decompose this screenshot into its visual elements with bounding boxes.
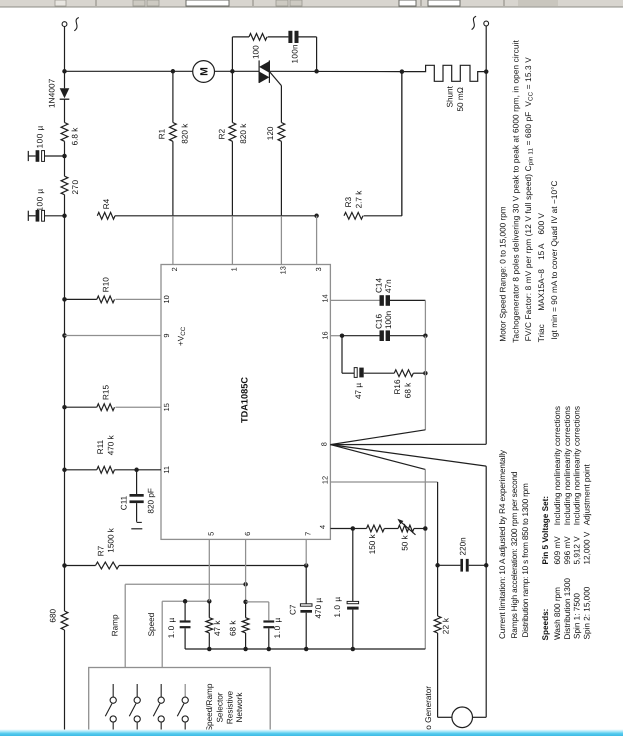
- label R16: [393, 379, 402, 394]
- node 47k bottom: [207, 647, 212, 652]
- label 680: [49, 608, 58, 622]
- label Selector: [216, 692, 225, 722]
- svg-text:9: 9: [162, 333, 171, 337]
- pin 4 number: [318, 525, 327, 529]
- pin13 lead: [280, 141, 282, 264]
- svg-text:47 µ: 47 µ: [354, 383, 363, 399]
- pin9 lead: [65, 335, 162, 337]
- label Speed: [147, 612, 156, 636]
- svg-text:220n: 220n: [458, 537, 467, 556]
- svg-text:270: 270: [71, 179, 80, 194]
- svg-text:100 µ: 100 µ: [36, 188, 45, 211]
- svg-text:470 µ: 470 µ: [314, 598, 323, 619]
- resistor 100: [232, 34, 267, 41]
- label 100n C16: [384, 310, 393, 329]
- note triac type: [537, 212, 546, 342]
- svg-text:47 k: 47 k: [213, 620, 222, 636]
- label Shunt: [446, 85, 455, 107]
- node shunt right: [484, 69, 489, 74]
- wire pot riser: [424, 469, 426, 649]
- wire R3 riser node: [401, 72, 403, 216]
- svg-text:820 k: 820 k: [181, 123, 190, 144]
- label TDA1085C: [239, 377, 249, 423]
- switch S1: [105, 684, 116, 730]
- svg-text:Including nonlinearity correct: Including nonlinearity corrections: [563, 406, 572, 525]
- pin14 lead: [330, 299, 379, 301]
- label Tacho Generator: [424, 686, 433, 736]
- pin 11 number: [162, 466, 171, 474]
- capacitor 100u lower: [28, 210, 64, 222]
- node 220n left: [435, 563, 440, 568]
- node 68k bottom: [243, 647, 248, 652]
- label 220n: [458, 537, 467, 556]
- triac: [259, 60, 269, 83]
- wire R3 to corner: [364, 72, 402, 216]
- resistor R11: [65, 466, 115, 473]
- resistor 22k: [434, 616, 441, 633]
- node R7: [62, 563, 67, 568]
- node pin6 rail: [243, 600, 248, 605]
- svg-text:TDA1085C: TDA1085C: [239, 377, 249, 423]
- svg-text:2: 2: [170, 267, 179, 271]
- node R11: [62, 468, 67, 473]
- wire C11 top: [136, 470, 138, 494]
- label Speeds header: [541, 609, 550, 641]
- label R1: [157, 128, 166, 139]
- svg-text:470 k: 470 k: [106, 434, 115, 455]
- pin8 fan line d: [330, 445, 486, 467]
- node snubber right: [314, 69, 319, 74]
- wire diode to 6.8k: [64, 99, 66, 122]
- svg-text:Including nonlinearity correct: Including nonlinearity corrections: [553, 406, 562, 525]
- pin16 lead: [330, 335, 342, 337]
- wire cap3 riser: [352, 529, 354, 602]
- resistor R4: [97, 212, 115, 219]
- toolbar fragments: [55, 0, 558, 6]
- ground C11: [131, 522, 142, 528]
- wire R1 top: [172, 71, 174, 122]
- svg-text:6.8 k: 6.8 k: [71, 127, 80, 146]
- node cap2 bottom: [267, 647, 272, 652]
- diode 1N4007: [60, 88, 70, 99]
- pin7 lead: [305, 539, 307, 565]
- svg-text:4: 4: [318, 525, 327, 529]
- toolbar background: [0, 0, 623, 7]
- svg-text:C7: C7: [289, 604, 298, 615]
- label Pin5 header: [541, 496, 550, 565]
- svg-text:1500 k: 1500 k: [107, 527, 116, 552]
- note fvc factor: [524, 57, 535, 341]
- wire C11 bottom: [136, 503, 138, 522]
- svg-text:100: 100: [252, 45, 261, 59]
- speed row distribution: [563, 406, 572, 639]
- label R7: [96, 545, 105, 556]
- wire motor to triac node: [215, 70, 260, 72]
- node R10: [62, 297, 67, 302]
- svg-text:Resistive: Resistive: [225, 690, 234, 724]
- node pin4: [351, 526, 356, 531]
- pin2 lead: [172, 141, 174, 264]
- pin4 lead: [330, 528, 352, 530]
- svg-text:R15: R15: [101, 385, 110, 400]
- wire L1 down: [64, 27, 66, 72]
- left rail mid: [64, 216, 66, 566]
- wire R16 to node: [413, 372, 425, 374]
- node C7 bottom: [304, 647, 309, 652]
- label R4: [102, 198, 111, 209]
- pin 2 number: [170, 267, 179, 271]
- pin 12 number: [321, 476, 330, 484]
- resistor 68k: [242, 602, 249, 649]
- node R1 top: [171, 69, 176, 74]
- svg-text:50 k: 50 k: [401, 534, 410, 550]
- svg-text:6: 6: [243, 532, 252, 536]
- node cap3 bottom: [351, 647, 356, 652]
- svg-text:R7: R7: [96, 545, 105, 556]
- svg-text:100n: 100n: [384, 310, 393, 329]
- wire cap to R16: [364, 372, 395, 374]
- svg-text:C14: C14: [374, 278, 383, 293]
- capacitor 1.0u C: [347, 601, 359, 649]
- svg-text:Shunt: Shunt: [446, 85, 455, 107]
- svg-text:12,000 V: 12,000 V: [583, 531, 592, 564]
- switch S2: [129, 684, 140, 730]
- label 50 k: [401, 534, 410, 550]
- label 100n snubber: [290, 44, 299, 64]
- label 1N4007: [47, 78, 56, 108]
- selector box: [89, 668, 271, 736]
- svg-text:150 k: 150 k: [368, 533, 377, 554]
- pin6 lead: [245, 539, 247, 602]
- svg-text:Igt min = 90 mA to cover Quad: Igt min = 90 mA to cover Quad IV at −10°…: [550, 181, 559, 340]
- label 1.0 u B: [273, 617, 282, 638]
- pin 7 number: [303, 532, 312, 536]
- svg-text:Tacho Generator: Tacho Generator: [424, 686, 433, 736]
- note tachogenerator: [511, 40, 520, 343]
- wire 270 to R4 node: [64, 195, 66, 216]
- pin15 lead: [115, 406, 161, 408]
- resistor 270: [61, 176, 68, 195]
- node ramp pin6: [243, 582, 248, 587]
- svg-text:C16: C16: [374, 314, 383, 329]
- resistor R16 68k: [394, 370, 413, 377]
- speed row spin2: [583, 464, 592, 640]
- resistor R10: [65, 296, 115, 303]
- label 1.0 u A: [167, 617, 176, 638]
- svg-text:50 mΩ: 50 mΩ: [456, 87, 465, 111]
- wire snubber left: [231, 37, 233, 71]
- svg-text:M: M: [199, 67, 211, 76]
- wire 150k to pot: [384, 528, 398, 530]
- svg-text:Spin 1: 7500: Spin 1: 7500: [572, 593, 581, 639]
- svg-text:R11: R11: [96, 439, 105, 454]
- capacitor 100n snubber: [288, 31, 298, 43]
- svg-text:Pin 5 Voltage Set:: Pin 5 Voltage Set:: [541, 496, 550, 565]
- pin11 lead: [137, 469, 161, 471]
- svg-text:Network: Network: [235, 692, 244, 723]
- capacitor 100u upper: [28, 150, 64, 162]
- node shunt left: [400, 69, 405, 74]
- wire node to 270: [64, 156, 66, 176]
- pin8 fan line c: [330, 445, 425, 470]
- ramp line: [125, 584, 245, 667]
- wire C16 to node: [390, 335, 425, 337]
- svg-text:15: 15: [162, 403, 171, 411]
- pin 15 number: [162, 403, 171, 411]
- wire triac to shunt node: [269, 70, 402, 72]
- label R2 820 k: [239, 123, 248, 144]
- IC TDA1085C box: [161, 265, 330, 540]
- svg-text:Distribution ramp: 10 s from 8: Distribution ramp: 10 s from 850 to 1300…: [521, 483, 530, 637]
- note igt min: [550, 181, 559, 340]
- svg-text:Distribution 1300: Distribution 1300: [563, 578, 572, 640]
- pin3 lead: [316, 216, 318, 265]
- wire L2 down: [485, 26, 487, 72]
- svg-text:1N4007: 1N4007: [47, 78, 56, 108]
- wire 6.8k to node: [64, 141, 66, 156]
- capacitor 47u: [354, 368, 363, 378]
- label R10: [101, 277, 110, 292]
- svg-text:1: 1: [230, 267, 239, 271]
- label R2: [218, 128, 227, 139]
- wire 220n row left: [438, 564, 461, 566]
- svg-text:1.0 µ: 1.0 µ: [333, 596, 342, 617]
- wire main AC line: [65, 70, 193, 72]
- capacitor C16 100n: [380, 330, 391, 341]
- pin8 fan line a: [330, 430, 425, 445]
- taskbar edge: [0, 730, 623, 736]
- wire R4 to R3 node: [115, 215, 317, 217]
- AC terminal L1 (open circle): [62, 22, 67, 27]
- label 47 u: [354, 383, 363, 399]
- wire gate to 120: [280, 86, 282, 123]
- svg-text:Ramp: Ramp: [110, 614, 119, 636]
- switch S4: [177, 684, 188, 730]
- label R11: [96, 439, 105, 454]
- svg-text:R1: R1: [157, 128, 166, 139]
- switch S3: [153, 684, 164, 730]
- speed row spin1: [572, 406, 581, 639]
- wire left rail bottom: [64, 630, 66, 730]
- resistor 680: [61, 566, 68, 631]
- pin12 lead: [330, 482, 437, 565]
- resistor R1: [170, 123, 177, 142]
- svg-text:8: 8: [319, 442, 328, 446]
- svg-text:R16: R16: [393, 379, 402, 394]
- svg-text:100 µ: 100 µ: [36, 125, 45, 148]
- svg-text:Speed/Ramp: Speed/Ramp: [205, 683, 214, 731]
- pin 9 number: [162, 333, 171, 337]
- wire res to cap100n: [268, 36, 289, 38]
- svg-text:11: 11: [162, 466, 171, 474]
- capacitor 1.0u A: [180, 601, 191, 649]
- label R1 820 k: [181, 123, 190, 144]
- svg-text:2.7 k: 2.7 k: [355, 190, 364, 209]
- label 47 k: [213, 620, 222, 636]
- node pin3/R3: [314, 214, 319, 219]
- svg-text:C11: C11: [120, 495, 129, 510]
- resistor 120: [278, 123, 285, 142]
- shunt resistor: [402, 65, 486, 81]
- svg-text:100n: 100n: [290, 44, 299, 64]
- note current limitation: [498, 449, 507, 639]
- wire 22k to generator: [438, 633, 452, 717]
- wire 220n row right: [469, 564, 487, 566]
- pin 5 number: [207, 532, 216, 536]
- node R4 row: [62, 214, 67, 219]
- svg-text:820 pF: 820 pF: [146, 488, 155, 514]
- svg-text:68 k: 68 k: [404, 382, 413, 398]
- wire generator right: [473, 716, 487, 718]
- label Speed/Ramp: [205, 683, 214, 731]
- speed line: [162, 601, 209, 667]
- resistor R15: [65, 404, 115, 411]
- node R16 right: [423, 371, 428, 376]
- potentiometer 50k: [397, 519, 415, 535]
- label C11: [120, 495, 129, 510]
- node pin5 speed: [207, 599, 212, 604]
- wire R7 to C7: [119, 565, 306, 567]
- label 2.7 k: [355, 190, 364, 209]
- label 120: [266, 126, 275, 140]
- label C14: [374, 278, 383, 293]
- node pin9: [62, 333, 67, 338]
- svg-text:22 k: 22 k: [442, 617, 451, 634]
- node triac left / R2 / snubber: [230, 69, 235, 74]
- label +VCC: [177, 326, 188, 346]
- svg-text:47n: 47n: [384, 279, 393, 293]
- wire to diode: [64, 71, 66, 88]
- label R15: [101, 385, 110, 400]
- bottom rail: [185, 648, 425, 650]
- node 220n right: [484, 563, 489, 568]
- resistor 47k: [206, 601, 213, 649]
- resistor R2: [229, 123, 236, 142]
- pin1 lead: [231, 141, 233, 264]
- wire C7 upper: [305, 566, 307, 604]
- node R15: [62, 405, 67, 410]
- svg-text:Motor Speed Range: 0 to 15,000: Motor Speed Range: 0 to 15,000 rpm: [498, 206, 507, 341]
- label C16: [374, 314, 383, 329]
- svg-text:Adjustment point: Adjustment point: [583, 464, 592, 526]
- label Ramp: [110, 614, 119, 636]
- wire pot to node: [414, 528, 425, 530]
- svg-text:14: 14: [321, 294, 330, 302]
- node cap1: [62, 154, 67, 159]
- svg-text:68 k: 68 k: [229, 620, 238, 636]
- triac gate: [269, 72, 281, 86]
- node main-line left: [62, 69, 67, 74]
- node C11: [134, 468, 139, 473]
- svg-text:R2: R2: [218, 128, 227, 139]
- note ramps high accel: [510, 471, 519, 638]
- pin 8 number: [319, 442, 328, 446]
- wire 22k top: [437, 565, 439, 616]
- svg-text:Wash 800 rpm: Wash 800 rpm: [553, 587, 562, 640]
- svg-text:Spin 2: 15,000: Spin 2: 15,000: [583, 586, 592, 639]
- wire right rail upper: [485, 72, 487, 445]
- svg-text:10: 10: [162, 295, 171, 303]
- wire node to pin8 riser: [424, 336, 426, 430]
- wire C7 lower: [305, 613, 307, 649]
- label 1500 k: [107, 527, 116, 552]
- svg-text:5,912 V: 5,912 V: [572, 536, 581, 565]
- label 1.0 u C: [333, 596, 342, 617]
- node cap1 top: [183, 599, 188, 604]
- label 820 pF: [146, 488, 155, 514]
- node C16 right: [423, 333, 428, 338]
- note motor speed range: [498, 206, 507, 341]
- pin 3 number: [314, 267, 323, 271]
- capacitor 1.0u B: [263, 622, 274, 650]
- label 150 k: [368, 533, 377, 554]
- resistor 150k: [353, 525, 385, 532]
- label 47n: [384, 279, 393, 293]
- svg-text:13: 13: [279, 266, 288, 274]
- label 100: [252, 45, 261, 59]
- label R3: [344, 196, 353, 207]
- svg-text:R10: R10: [101, 277, 110, 292]
- pin 1 number: [230, 267, 239, 271]
- label Network: [235, 692, 244, 723]
- tacho generator: [452, 707, 473, 728]
- pin 10 number: [162, 295, 171, 303]
- wire snubber right: [299, 37, 317, 71]
- label 6.8 k: [71, 127, 80, 146]
- svg-text:680: 680: [49, 608, 58, 622]
- svg-text:Triac MAX15A~8 15 A: Triac MAX15A~8 15 A 600 V: [537, 212, 546, 342]
- node C7 top: [304, 563, 309, 568]
- label 100 u lower: [36, 188, 45, 211]
- capacitor 220n: [460, 559, 468, 572]
- label 22 k: [442, 617, 451, 634]
- wire 47u branch: [342, 336, 354, 374]
- capacitor C14 47n: [380, 295, 391, 306]
- svg-text:3: 3: [314, 267, 323, 271]
- pin 14 number: [321, 294, 330, 302]
- svg-text:R4: R4: [102, 198, 111, 209]
- svg-text:12: 12: [321, 476, 330, 484]
- note distribution ramp: [521, 483, 530, 637]
- label 470 k: [106, 434, 115, 455]
- AC break squiggle right: [472, 16, 477, 29]
- label 270: [71, 179, 80, 194]
- AC terminal L2 (open circle): [484, 21, 489, 26]
- pin10 lead: [115, 298, 161, 300]
- svg-text:Speeds:: Speeds:: [541, 609, 550, 641]
- capacitor C11 820pF: [130, 494, 144, 503]
- speed row wash: [553, 406, 562, 640]
- wire right rail lower: [485, 466, 487, 717]
- wire R11 to C11 node: [115, 469, 137, 471]
- svg-text:1.0 µ: 1.0 µ: [167, 617, 176, 638]
- label 50 mOhm: [456, 87, 465, 111]
- label 68 k: [404, 382, 413, 398]
- node C16 left: [340, 333, 345, 338]
- label C7: [289, 604, 298, 615]
- svg-text:16: 16: [321, 331, 330, 339]
- pin8 fan line b: [330, 443, 486, 445]
- label 100 u upper: [36, 125, 45, 148]
- pin 6 number: [243, 532, 252, 536]
- svg-text:1.0 µ: 1.0 µ: [273, 617, 282, 638]
- ramp subrail: [246, 602, 269, 620]
- svg-text:120: 120: [266, 126, 275, 140]
- resistor 6.8k: [61, 123, 68, 142]
- svg-text:Including nonlinearity correct: Including nonlinearity corrections: [572, 406, 581, 525]
- motor M: [193, 61, 215, 83]
- svg-text:Selector: Selector: [216, 692, 225, 722]
